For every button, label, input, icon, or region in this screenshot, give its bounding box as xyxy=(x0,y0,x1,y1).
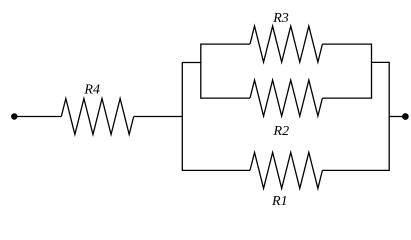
wire left bus (vertical) xyxy=(181,62,183,171)
wire bottom rail left xyxy=(182,169,250,171)
wire bottom rail right xyxy=(322,169,389,171)
wire R3 branch right xyxy=(322,43,371,45)
wire R2 branch left xyxy=(201,97,250,99)
wire left top connector xyxy=(182,62,201,64)
wire right bus (vertical) xyxy=(388,62,390,171)
resistor R4 xyxy=(61,99,133,135)
wire from R4 to left bus xyxy=(134,116,183,118)
resistor R2 xyxy=(250,80,322,116)
svg-text:R4: R4 xyxy=(83,82,100,97)
wire right top connector xyxy=(372,61,390,63)
wire R2 branch right xyxy=(322,97,371,99)
svg-text:R1: R1 xyxy=(271,194,288,209)
resistor R3 xyxy=(250,26,322,62)
wire from left terminal to R4 xyxy=(17,116,62,118)
svg-text:R3: R3 xyxy=(272,11,289,26)
resistor R1 xyxy=(250,152,322,188)
left terminal node xyxy=(12,114,17,119)
wire from right bus to right terminal xyxy=(389,116,403,118)
right terminal node xyxy=(403,114,409,120)
svg-text:R2: R2 xyxy=(273,124,290,139)
wire R3 branch left xyxy=(201,43,250,45)
wire inner-right vertical xyxy=(371,43,373,98)
wire inner-left vertical xyxy=(200,43,202,98)
